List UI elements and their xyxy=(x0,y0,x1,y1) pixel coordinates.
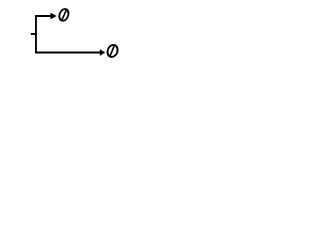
wire xyxy=(35,52,100,54)
wire xyxy=(31,33,37,35)
node A xyxy=(50,9,69,21)
wire xyxy=(36,16,52,53)
node B xyxy=(100,45,119,57)
